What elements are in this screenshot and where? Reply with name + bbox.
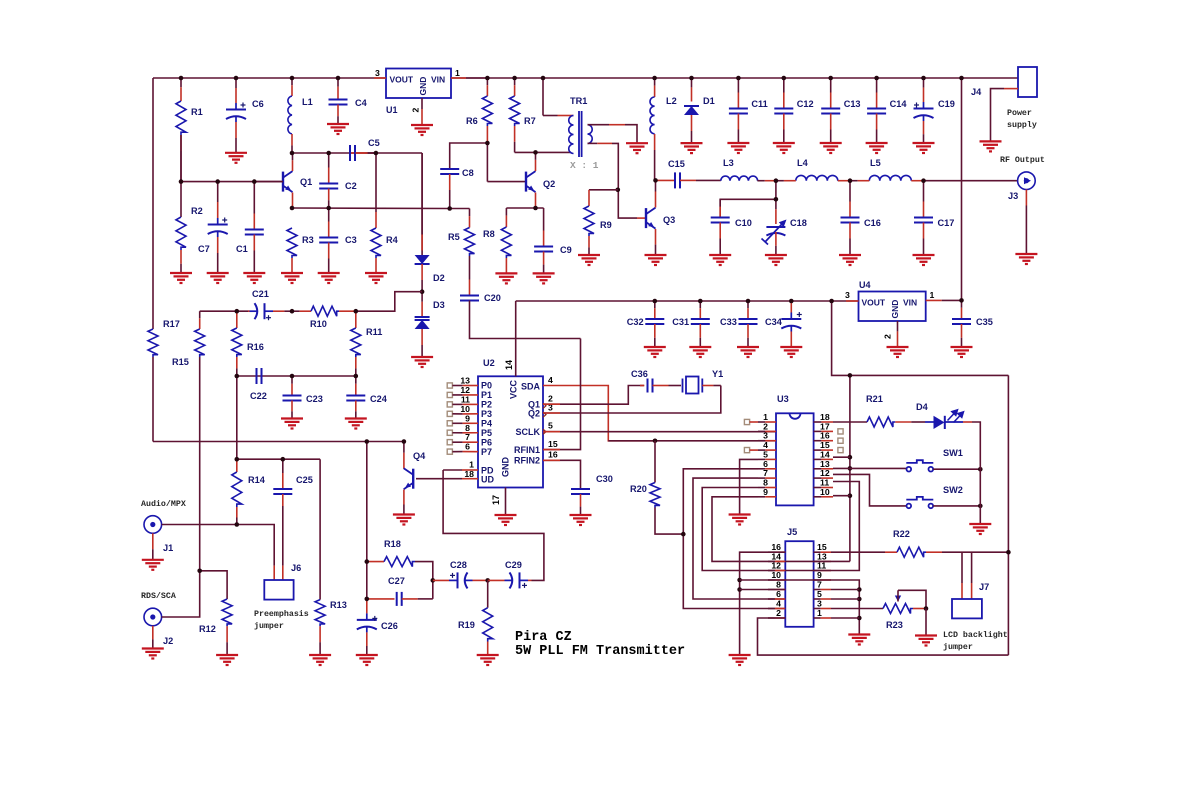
capacitor C23 — [283, 396, 302, 401]
capacitor C19 (polarized) — [914, 102, 934, 121]
ground C7 — [207, 273, 229, 283]
J5 left pin 6 stub — [768, 598, 775, 600]
R18 right wire — [415, 562, 433, 599]
svg-text:12: 12 — [771, 561, 781, 571]
junction rail/U4 branch — [959, 76, 964, 81]
svg-text:Preemphasis: Preemphasis — [254, 609, 309, 619]
C10 top pin — [719, 199, 721, 206]
svg-text:Q3: Q3 — [663, 215, 675, 225]
capacitor C20 — [460, 296, 479, 301]
R11 bottom pin — [355, 357, 357, 368]
capacitor C30 — [571, 489, 590, 494]
svg-text:C30: C30 — [596, 474, 613, 484]
ground C6 — [225, 153, 247, 163]
D1 bottom pin — [691, 115, 693, 131]
U3 left pin 6 stub — [758, 468, 765, 470]
svg-text:VIN: VIN — [903, 298, 917, 308]
svg-text:C5: C5 — [368, 138, 380, 148]
junction J5 pin7 / column — [857, 587, 862, 592]
transformer TR1 secondary coil — [588, 125, 593, 144]
wire R1/R2 junction drop — [180, 135, 182, 217]
svg-text:6: 6 — [465, 442, 470, 452]
ground TR1 secondary — [626, 143, 648, 153]
ground R2 — [170, 273, 192, 283]
C26 bottom pin — [366, 632, 368, 646]
junction D2/D3 node — [420, 289, 425, 294]
svg-text:C14: C14 — [890, 99, 908, 109]
ground C17 — [913, 255, 935, 265]
C11 bottom pin — [737, 114, 739, 130]
J5 pin7 wire to column — [831, 589, 859, 591]
J5 pin10 wire to gnd column — [740, 579, 786, 581]
junction RF node L5/C17 — [921, 178, 926, 183]
U2 P5 pin wire — [452, 432, 462, 434]
Q4 collector wire — [403, 453, 405, 469]
U2 Q1 pin red stub — [543, 403, 560, 405]
svg-text:5: 5 — [548, 421, 553, 431]
transistor Q4 — [404, 468, 414, 489]
TR1 primary top wire — [543, 115, 558, 117]
junction 5V rail/C32 — [653, 299, 658, 304]
ground U2 pin17 — [495, 515, 517, 525]
audio jack J1 — [144, 516, 162, 534]
U3 left pin 1 stub — [758, 421, 765, 423]
R14 bottom pin — [236, 507, 238, 518]
svg-text:jumper: jumper — [943, 642, 973, 652]
SW column to ground — [979, 469, 981, 524]
U3 right pin 14 stub — [814, 458, 822, 460]
svg-text:16: 16 — [548, 450, 558, 460]
capacitor C12 — [774, 109, 793, 114]
C5 right stub — [356, 152, 368, 154]
junction emitter row/C8 — [447, 206, 452, 211]
wire J5 pin11 to U3 pin11 — [785, 482, 859, 571]
svg-text:R18: R18 — [384, 539, 401, 549]
svg-text:R3: R3 — [302, 235, 314, 245]
ground J5 pin9 net — [848, 635, 870, 645]
C2 top pin — [328, 153, 330, 168]
Q4 emitter wire — [403, 490, 405, 505]
U3 right pin 11 stub — [814, 487, 822, 489]
U3 right pin 17 stub — [814, 430, 822, 432]
svg-text:C19: C19 — [938, 99, 955, 109]
ground C30 — [570, 515, 592, 525]
svg-text:1: 1 — [817, 608, 822, 618]
J5 pin3 wire to R23 — [831, 608, 883, 610]
C6 top pin — [235, 78, 237, 88]
C30 bottom pin — [580, 494, 582, 507]
J7 pin wire 1 — [961, 570, 963, 583]
R17 bottom wire — [152, 357, 154, 442]
U3 right pin 15 stub — [814, 449, 822, 451]
svg-text:R2: R2 — [191, 206, 203, 216]
U3 left pin 9 stub — [758, 496, 765, 498]
junction RF node L4/L5/C16 — [848, 178, 853, 183]
transformer TR1 primary coil — [569, 116, 574, 154]
U1 GND pin2 wire — [421, 98, 423, 109]
wire Y1 to U2 Q2 pin — [543, 386, 721, 414]
C9 bottom pin — [543, 252, 545, 265]
transistor Q1 — [283, 171, 293, 192]
Q2 collector wire — [535, 160, 537, 171]
svg-text:5W PLL FM Transmitter: 5W PLL FM Transmitter — [515, 644, 685, 659]
resistor R10 — [311, 306, 339, 316]
wire 5V drop right to R22 column — [1007, 375, 1009, 552]
wire Q1 base bias row — [181, 181, 283, 183]
J5 right pin 5 stub — [814, 598, 821, 600]
C3 bottom pin — [328, 243, 330, 259]
wire node to R12 — [200, 571, 227, 599]
junction U3 pin10 row / 5V column — [848, 493, 853, 498]
capacitor C34 (polarized) — [781, 313, 801, 332]
U2 Q1 pin marker — [543, 403, 546, 408]
junction RF node L3/L4 — [774, 178, 779, 183]
wire C20 to RFIN1 — [543, 339, 581, 450]
svg-text:C2: C2 — [345, 181, 357, 191]
R9 top pin — [588, 190, 590, 206]
R9 bottom pin — [588, 236, 590, 247]
svg-text:VOUT: VOUT — [862, 298, 886, 308]
svg-text:J2: J2 — [163, 636, 173, 646]
crystal Y1 — [683, 377, 703, 394]
R10 right stub — [339, 310, 356, 312]
ground U3 pin5 — [729, 515, 751, 525]
wire J5 pin15 to R22 — [831, 551, 885, 553]
C7 bottom pin — [217, 237, 219, 253]
TR1 secondary bottom red stub — [588, 142, 598, 144]
wire 5V drop to J5 pin13 column — [849, 375, 851, 561]
wire J5 pin16 ground column — [740, 552, 786, 655]
C4 top pin — [337, 78, 339, 87]
svg-text:supply: supply — [1007, 120, 1037, 130]
L1 bottom pin — [291, 134, 293, 145]
R15 bottom wire — [199, 357, 201, 571]
resistor R9 — [584, 206, 594, 236]
R12 bottom pin — [226, 626, 228, 642]
C2 bottom pin — [328, 189, 330, 201]
J6 pin2 red entry — [282, 556, 284, 566]
ground R12 — [216, 655, 238, 665]
C19 top pin — [923, 78, 925, 88]
C29 row from node — [488, 579, 505, 581]
junction rail/D1 — [689, 76, 694, 81]
wire J5 pin9 ground column — [785, 580, 859, 634]
svg-text:R23: R23 — [886, 620, 903, 630]
R16 bottom pin — [236, 357, 238, 368]
capacitor C4 — [329, 100, 348, 105]
junction row376/R16-C22 — [235, 374, 240, 379]
svg-text:J1: J1 — [163, 543, 173, 553]
R19 bottom pin — [487, 642, 489, 656]
svg-text:GND: GND — [501, 457, 511, 478]
U2 port square P1 — [447, 392, 452, 397]
svg-text:C33: C33 — [720, 317, 737, 327]
C34 bottom pin — [790, 332, 792, 348]
R23 right wire — [913, 608, 926, 610]
U2 P6 pin wire — [452, 441, 462, 443]
R5 bottom to C20 — [469, 256, 471, 280]
C3 top pin — [328, 208, 330, 222]
ground C32 — [644, 347, 666, 357]
svg-text:jumper: jumper — [254, 621, 284, 631]
svg-text:R20: R20 — [630, 484, 647, 494]
ground R9 — [578, 255, 600, 265]
svg-text:D2: D2 — [433, 273, 445, 283]
svg-text:RFIN2: RFIN2 — [514, 456, 540, 466]
wire R6 to Q2 base — [487, 181, 526, 183]
svg-text:R19: R19 — [458, 620, 475, 630]
J5 left pin 10 stub — [768, 579, 775, 581]
svg-text:2: 2 — [411, 108, 421, 113]
U3 pin4 terminator square — [744, 448, 749, 453]
R13 top wire — [319, 459, 321, 599]
junction C27/C26 left node — [365, 597, 370, 602]
capacitor C16 — [841, 218, 860, 223]
svg-text:C21: C21 — [252, 289, 269, 299]
J5 left pin 14 stub — [768, 560, 775, 562]
wire J1 to preemphasis — [162, 525, 275, 557]
junction rail/L1 — [290, 76, 295, 81]
svg-text:Pira CZ: Pira CZ — [515, 630, 572, 645]
U2 Q2 pin marker — [543, 412, 546, 417]
L1 top pin — [291, 78, 293, 85]
junction rail/R1 — [179, 76, 184, 81]
wire Q2 emitter node row — [506, 207, 543, 209]
svg-text:C29: C29 — [505, 560, 522, 570]
resistor R13 — [315, 600, 325, 627]
U3 right pin 10 stub — [814, 496, 822, 498]
Q3 emitter wire — [655, 229, 657, 245]
capacitor C31 — [691, 319, 710, 324]
C11 top pin — [737, 78, 739, 93]
svg-text:L4: L4 — [797, 158, 809, 168]
junction emitter row/Q1 — [290, 206, 295, 211]
C12 top pin — [783, 78, 785, 93]
Q2 emitter wire — [535, 193, 537, 209]
wire U3 pin5 to ground — [740, 459, 758, 514]
R2 bottom pin — [180, 250, 182, 264]
junction node row/C5-R4 — [374, 151, 379, 156]
junction Q2 emitter node — [533, 206, 538, 211]
wire J5 pin13 to U3 column — [785, 560, 850, 562]
svg-text:L5: L5 — [870, 158, 881, 168]
svg-text:C8: C8 — [462, 168, 474, 178]
SW1 right wire — [933, 468, 980, 470]
inductor L5 — [869, 175, 911, 180]
wire audio filter row y=311 — [200, 310, 250, 312]
wire emitter row to R5 corner — [450, 208, 470, 210]
junction rail/L2 — [652, 76, 657, 81]
J5 right pin 15 stub — [814, 551, 821, 553]
svg-text:2: 2 — [776, 608, 781, 618]
svg-text:1: 1 — [455, 68, 460, 78]
C5 left stub — [365, 152, 376, 154]
ground C11 — [727, 143, 749, 153]
U3 pin1 terminator square — [744, 419, 749, 424]
junction rail/R7 — [512, 76, 517, 81]
U2 port square P3 — [447, 411, 452, 416]
wire C5 row to D2 drop — [421, 153, 423, 255]
J5 right pin 7 stub — [814, 589, 821, 591]
C25 top pin — [282, 459, 284, 473]
C33 top pin — [747, 301, 749, 308]
junction rail/TR1 — [541, 76, 546, 81]
C35 top pin — [961, 300, 963, 307]
R14 top pin — [236, 459, 238, 472]
C32 bottom pin — [654, 324, 656, 338]
U3 left pin 5 stub — [758, 458, 765, 460]
R11 top pin — [355, 311, 357, 328]
R5 top pin — [469, 209, 471, 217]
resistor R5 — [465, 228, 475, 257]
inductor L2 — [650, 97, 655, 134]
U2 P7 pin wire — [452, 451, 462, 453]
capacitor C1 — [245, 230, 264, 235]
diode D1 — [684, 106, 699, 115]
svg-text:SW1: SW1 — [943, 448, 963, 458]
C25 bottom red stub — [282, 494, 284, 506]
svg-text:C6: C6 — [252, 99, 264, 109]
U2 P0 pin wire — [452, 385, 462, 387]
svg-text:SW2: SW2 — [943, 485, 963, 495]
svg-text:C34: C34 — [765, 317, 783, 327]
J3 ground wire — [1025, 190, 1027, 206]
ground D1 — [681, 143, 703, 153]
U3 pin15 terminator square — [838, 448, 843, 453]
U2 port square P0 — [447, 383, 452, 388]
capacitor C3 — [319, 238, 338, 243]
C12 bottom pin — [783, 114, 785, 130]
junction rail/C4 — [336, 76, 341, 81]
svg-text:Y1: Y1 — [712, 369, 723, 379]
wire node to C10 — [720, 199, 776, 217]
U3 pin4 terminator wire — [750, 449, 758, 451]
wire U3 pin12 to SW2 — [833, 474, 907, 506]
J5 pin8 wire to gnd column — [740, 589, 786, 591]
wire SDA row to U3 pin3 — [608, 440, 776, 442]
C10 bottom pin — [719, 223, 721, 239]
svg-text:R16: R16 — [247, 342, 264, 352]
capacitor C15 — [675, 172, 680, 188]
resistor R17 — [148, 329, 158, 357]
capacitor C24 — [346, 396, 365, 401]
TR1 secondary bottom route — [612, 143, 637, 218]
U2 port square P4 — [447, 421, 452, 426]
junction C25 top node — [281, 457, 286, 462]
C25 bottom wire — [282, 506, 284, 556]
wire J5 pin2 bottom route — [758, 618, 1009, 655]
svg-text:R13: R13 — [330, 600, 347, 610]
junction R14 top node — [235, 457, 240, 462]
svg-text:C35: C35 — [976, 317, 993, 327]
wire rail to R18 column — [366, 442, 368, 562]
C28 right stub — [473, 579, 488, 581]
U4 pin1 red stub — [926, 299, 942, 301]
C6 bottom pin — [235, 122, 237, 138]
U3 pin16 terminator square — [838, 438, 843, 443]
svg-text:6: 6 — [776, 589, 781, 599]
junction rail/C12 — [782, 76, 787, 81]
R21 left wire — [833, 421, 867, 423]
svg-text:C7: C7 — [198, 244, 210, 254]
svg-text:C28: C28 — [450, 560, 467, 570]
svg-text:C24: C24 — [370, 394, 388, 404]
ground U1 — [411, 125, 433, 135]
ground C16 — [839, 255, 861, 265]
ground C1 — [243, 273, 265, 283]
junction rail/C11 — [736, 76, 741, 81]
wire U3 pin13 to SW1 — [833, 467, 907, 469]
L2 top pin — [654, 78, 656, 86]
svg-text:D1: D1 — [703, 96, 715, 106]
junction rail441/Q4 collector — [402, 439, 407, 444]
pushbutton SW2 — [906, 497, 933, 508]
R6 bottom pin — [486, 126, 488, 143]
R16 top pin — [236, 311, 238, 328]
wire Q1 emitter row y=208 — [292, 207, 450, 210]
wire RFIN2 to C30 — [543, 460, 581, 489]
svg-text:J3: J3 — [1008, 191, 1018, 201]
svg-text:R10: R10 — [310, 319, 327, 329]
R19 top wire — [487, 580, 489, 607]
junction SDA row / R20 — [653, 439, 658, 444]
U2 GND pin17 wire — [505, 488, 507, 516]
voltage regulator U1 box — [386, 69, 451, 99]
svg-text:SCLK: SCLK — [516, 427, 541, 437]
C13 bottom pin — [830, 114, 832, 130]
C4 bottom pin — [337, 105, 339, 117]
J2 ground stub — [152, 626, 154, 640]
svg-text:UD: UD — [481, 475, 494, 485]
junction J5 pin10 / gnd column — [737, 578, 742, 583]
J5 right pin 1 stub — [814, 617, 821, 619]
ground R8 — [495, 273, 517, 283]
svg-text:C9: C9 — [560, 245, 572, 255]
ground C18 — [765, 255, 787, 265]
wire U3 pin9 to J5 pin14 — [712, 497, 785, 562]
ground C10 — [709, 255, 731, 265]
svg-text:R11: R11 — [366, 327, 382, 337]
svg-text:R15: R15 — [172, 357, 189, 367]
U2 P2 pin wire — [452, 403, 462, 405]
resistor R7 — [510, 96, 520, 126]
wire rail down to U4 VIN — [961, 78, 963, 300]
U2 P3 pin wire — [452, 413, 462, 415]
svg-text:GND: GND — [890, 300, 900, 319]
junction SW1 / D4 column — [978, 467, 983, 472]
wire U3 pin7 to J5 pin6 — [693, 478, 785, 599]
R6 lower wire to base row — [486, 143, 488, 182]
wire 5V to U3/J5 area — [832, 301, 1009, 375]
RF output jack J3 — [1018, 172, 1036, 190]
trimmer capacitor C18 — [762, 224, 786, 245]
junction C10/C18 node — [774, 197, 779, 202]
C26 top pin — [366, 599, 368, 614]
R20 bottom wire to J5 pin4 net — [655, 508, 683, 535]
wire SDA net — [543, 386, 655, 441]
junction 5V rail/C33 — [746, 299, 751, 304]
C21 right stub — [273, 310, 284, 312]
R8 bottom pin — [505, 258, 507, 273]
ground J5 — [729, 655, 751, 665]
svg-text:RFIN1: RFIN1 — [514, 445, 540, 455]
junction R20 / U3 pin6 net — [681, 532, 686, 537]
J4 second pin to ground — [991, 89, 1005, 142]
J5 right pin 13 stub — [814, 560, 821, 562]
junction R18/C27 left node — [365, 559, 370, 564]
J5 right pin 3 stub — [814, 608, 821, 610]
capacitor C9 — [534, 247, 553, 252]
